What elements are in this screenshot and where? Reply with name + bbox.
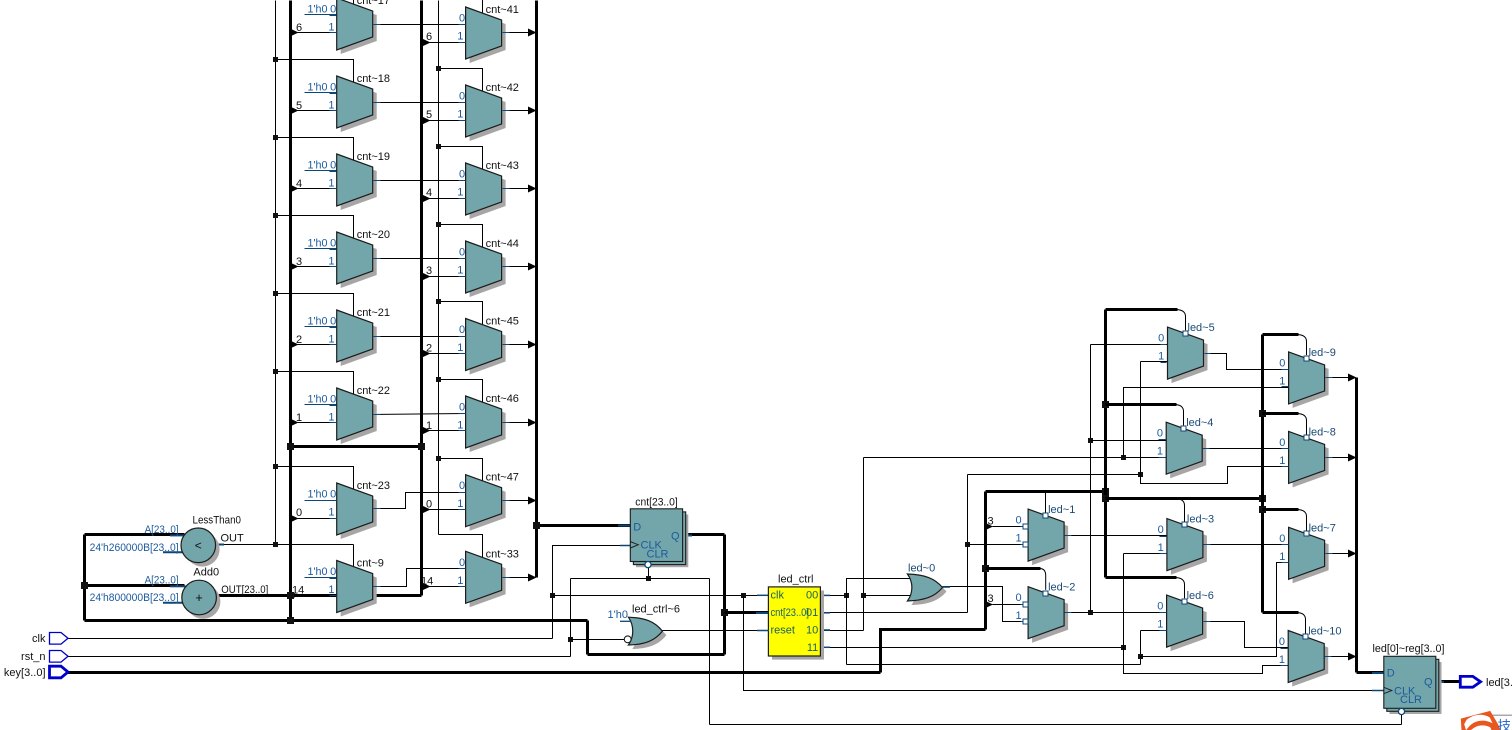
- wire reset rail top: [571, 578, 710, 580]
- wire bus Q vertical: [723, 535, 726, 655]
- wire drop led~10 select: [1297, 613, 1305, 634]
- svg-text:0: 0: [330, 394, 336, 406]
- wire select cnt~17: [276, 0, 354, 5]
- wire net11 from led_ctrl: [821, 647, 1124, 649]
- svg-text:A[23..0]: A[23..0]: [145, 574, 179, 586]
- wire bit tap cnt~22: [291, 422, 337, 424]
- mux cnt~45: [457, 316, 519, 375]
- svg-text:Q: Q: [671, 531, 680, 543]
- svg-text:cnt~41: cnt~41: [486, 4, 519, 16]
- svg-text:0: 0: [1279, 437, 1285, 449]
- wire led~7 output: [1325, 553, 1349, 555]
- svg-text:0: 0: [459, 169, 465, 181]
- junction OUT to select rail: [273, 542, 278, 547]
- svg-text:<: <: [195, 539, 202, 553]
- mux led~7: [1279, 522, 1336, 583]
- svg-text:00: 00: [806, 590, 818, 602]
- wire select cnt~33: [439, 535, 483, 558]
- wire net01 rise: [967, 475, 969, 613]
- junction bus link right: [418, 443, 425, 450]
- wire stub CLK led register: [1372, 690, 1385, 692]
- wire stub 11 led_ctrl: [820, 646, 830, 648]
- wire bus select to led~3: [1106, 497, 1263, 500]
- wire stub CLK cnt: [620, 545, 631, 547]
- wire select cnt~47: [439, 459, 483, 481]
- svg-text:1: 1: [1015, 610, 1021, 622]
- wire bus key to led~2 select: [986, 567, 1041, 570]
- svg-text:cnt~9: cnt~9: [357, 558, 384, 570]
- wire led~5 output to led~9 input0: [1203, 354, 1289, 370]
- svg-text:1: 1: [457, 575, 463, 587]
- wire bus A into Add0: [85, 584, 185, 587]
- wire select cnt~23: [276, 467, 354, 489]
- wire net00 up to led~0 input A: [847, 579, 915, 596]
- svg-text:1: 1: [328, 256, 334, 268]
- svg-text:led~7: led~7: [1309, 522, 1336, 534]
- wire stub 00 led_ctrl: [820, 594, 830, 596]
- svg-text:led_ctrl~6: led_ctrl~6: [632, 604, 680, 616]
- junction net00 branch to led~7: [1138, 654, 1143, 659]
- svg-text:D: D: [1387, 668, 1395, 680]
- wire net10 rise: [863, 458, 865, 631]
- wire bit tap cnt~42: [423, 120, 466, 122]
- wire led~1 output to led~3 input0: [1065, 535, 1167, 537]
- wire const 1'h0 stub cnt~23: [305, 500, 337, 502]
- junction select rail right column: [1259, 495, 1266, 502]
- svg-text:cnt~47: cnt~47: [486, 472, 519, 484]
- arrow bit tap cnt~33: [422, 583, 431, 591]
- wire drop led~4 select: [1175, 405, 1183, 426]
- wire net00 branch to led~7 input1: [1141, 563, 1289, 657]
- svg-text:1: 1: [457, 109, 463, 121]
- wire led register CLR drop: [1401, 715, 1403, 725]
- svg-text:3: 3: [988, 593, 994, 605]
- svg-text:+: +: [195, 590, 203, 605]
- wire net01 up branch: [1140, 362, 1142, 475]
- wire select cnt~43: [439, 147, 483, 169]
- junction select to led~8: [1259, 410, 1266, 417]
- register cnt[23..0]: [630, 497, 688, 568]
- wire stub Q cnt: [683, 535, 692, 537]
- wire led~3 output to led~7 input0: [1203, 544, 1289, 546]
- mux led~4: [1157, 417, 1214, 478]
- wire net00 to led~6 input1: [1141, 630, 1167, 632]
- arrow bit tap cnt~41: [422, 39, 431, 47]
- junction net10 to led~0 input B: [861, 593, 866, 598]
- svg-text:clk: clk: [32, 633, 46, 645]
- arrow bit tap cnt~45: [422, 350, 431, 358]
- junction net01 to led~1: [965, 542, 970, 547]
- svg-text:5: 5: [296, 100, 302, 112]
- wire key bit3 to led~1 input0: [993, 526, 1023, 528]
- mux cnt~47: [457, 472, 519, 531]
- svg-text:cnt~45: cnt~45: [486, 316, 519, 328]
- wire bus select to led~4: [1106, 403, 1177, 406]
- arrow bit tap cnt~44: [422, 273, 431, 281]
- wire bus cnt feedback column2: [420, 1, 423, 596]
- svg-text:1'h0: 1'h0: [308, 160, 328, 172]
- wire clk rise: [552, 596, 554, 639]
- wire rst_n from pin: [68, 656, 571, 658]
- wire net11 up to led~3 input1: [1123, 554, 1125, 648]
- wire output cnt~22 to cnt~46 input0: [373, 414, 466, 415]
- arrow bit tap cnt~47: [422, 506, 431, 514]
- wire net10 to led~0 input B: [864, 595, 915, 597]
- svg-text:cnt~43: cnt~43: [486, 160, 519, 172]
- junction select rail cnt~21: [273, 291, 278, 296]
- wire bus A into LessThan0: [85, 533, 185, 536]
- svg-text:1: 1: [457, 420, 463, 432]
- arrow bit tap cnt~18: [290, 107, 299, 115]
- svg-text:1'h0: 1'h0: [308, 489, 328, 501]
- svg-text:led~6: led~6: [1187, 590, 1214, 602]
- svg-text:0: 0: [330, 160, 336, 172]
- mux cnt~23: [328, 480, 390, 539]
- wire net10 branch to led~9 input1: [1124, 388, 1289, 458]
- svg-text:14: 14: [421, 575, 433, 587]
- junction led~2 out to led~4: [1088, 438, 1093, 443]
- wire bit tap cnt~41: [423, 42, 466, 44]
- svg-text:OUT[23..0]: OUT[23..0]: [221, 584, 268, 596]
- svg-text:1: 1: [328, 412, 334, 424]
- svg-text:led~10: led~10: [1308, 626, 1341, 638]
- wire select cnt~45: [439, 302, 483, 325]
- svg-text:0: 0: [330, 4, 336, 16]
- wire const 1'h0 stub cnt~21: [305, 326, 337, 328]
- junction key bus to led~2 select: [982, 565, 989, 572]
- wire output cnt~44 to merge bus: [502, 266, 529, 268]
- wire drop led~7 select: [1298, 510, 1307, 531]
- svg-text:3: 3: [988, 516, 994, 528]
- arrow bit tap cnt~46: [422, 427, 431, 435]
- wire select cnt~21: [276, 294, 354, 317]
- arrow key bit3 tap lower: [985, 601, 994, 609]
- arrow merge cnt~44: [528, 263, 537, 271]
- svg-text:1: 1: [328, 178, 334, 190]
- mux led~5: [1158, 322, 1215, 383]
- svg-text:0: 0: [459, 402, 465, 414]
- svg-text:Add0: Add0: [193, 567, 219, 579]
- svg-text:1: 1: [1157, 619, 1163, 631]
- mux cnt~33: [457, 548, 519, 607]
- svg-text:cnt~46: cnt~46: [486, 393, 519, 405]
- wire drop led~2 select: [1040, 569, 1045, 590]
- svg-text:6: 6: [296, 22, 302, 34]
- svg-text:1: 1: [457, 187, 463, 199]
- wire output cnt~19 to cnt~43 input0: [373, 180, 466, 182]
- mux led~1: [1015, 504, 1075, 565]
- junction key bus right rail: [1102, 488, 1109, 495]
- svg-text:0: 0: [459, 324, 465, 336]
- wire output cnt~17 to cnt~41 input0: [373, 24, 466, 26]
- svg-text:led_ctrl: led_ctrl: [778, 574, 813, 586]
- junction select rail cnt~47: [436, 456, 441, 461]
- wire select cnt~19: [276, 138, 354, 161]
- wire bit tap cnt~23: [291, 518, 337, 520]
- arrow led~8 to bus: [1348, 454, 1357, 462]
- svg-text:led~1: led~1: [1048, 504, 1075, 516]
- wire const 1'h0 stub cnt~22: [305, 404, 337, 406]
- svg-text:cnt[23..0]: cnt[23..0]: [771, 607, 810, 619]
- wire led~8 output: [1325, 457, 1349, 459]
- junction led~2 output rail: [1088, 610, 1093, 615]
- wire bus Q jog bottom: [588, 653, 725, 656]
- junction select rail cnt~18: [273, 57, 278, 62]
- wire led~2 output to led~6 input0: [1065, 612, 1167, 614]
- input pin key[3..0]: [4, 666, 68, 679]
- svg-text:0: 0: [330, 238, 336, 250]
- wire net00 rise right: [1140, 631, 1142, 665]
- svg-text:1: 1: [1158, 542, 1164, 554]
- svg-text:CLR: CLR: [647, 549, 669, 561]
- arrow bit tap cnt~21: [290, 341, 299, 349]
- svg-text:cnt~17: cnt~17: [357, 0, 390, 7]
- output pin led[3..0]: [1460, 676, 1512, 689]
- svg-text:0: 0: [426, 499, 432, 511]
- junction net10 branch to led~9: [1121, 455, 1126, 460]
- arrow merge cnt~45: [528, 341, 537, 349]
- wire bus select to led~8: [1263, 412, 1299, 415]
- wire bus to led register D: [1357, 671, 1384, 674]
- svg-text:led~9: led~9: [1309, 347, 1336, 359]
- junction select rail cnt~23: [273, 464, 278, 469]
- svg-text:0: 0: [1279, 533, 1285, 545]
- wire select cnt~18: [276, 60, 354, 83]
- svg-text:4: 4: [296, 178, 302, 190]
- junction select rail cnt~20: [273, 213, 278, 218]
- svg-text:0: 0: [1157, 428, 1163, 440]
- junction select to led~7: [1259, 506, 1266, 513]
- wire led~2 out to led~4 input0: [1091, 440, 1167, 442]
- watermark box edge: [1492, 714, 1512, 716]
- wire bus select to led~9: [1263, 333, 1299, 336]
- mux cnt~19: [328, 151, 390, 210]
- svg-text:1: 1: [457, 342, 463, 354]
- operator Add0: [90, 567, 269, 619]
- wire bit tap cnt~20: [291, 266, 337, 268]
- wire output cnt~21 to cnt~45 input0: [373, 336, 466, 338]
- svg-text:cnt~20: cnt~20: [357, 229, 390, 241]
- arrow bit tap cnt~43: [422, 195, 431, 203]
- svg-text:0: 0: [459, 91, 465, 103]
- mux led~8: [1279, 426, 1336, 487]
- svg-text:clk: clk: [771, 590, 785, 602]
- wire bit tap cnt~45: [423, 353, 466, 355]
- svg-text:1: 1: [1157, 446, 1163, 458]
- wire const 1'h0 stub cnt~19: [305, 170, 337, 172]
- svg-text:1'h0: 1'h0: [308, 238, 328, 250]
- wire clk to led register CLK: [744, 596, 1384, 691]
- wire bus select to led~7: [1263, 508, 1299, 511]
- svg-text:0: 0: [1158, 524, 1164, 536]
- mux cnt~46: [457, 393, 519, 452]
- wire drop led~3 select: [1176, 499, 1185, 522]
- wire bus select rail mid: [1104, 310, 1107, 578]
- wire output cnt~23 to cnt~47 input0: [373, 493, 466, 509]
- wire bus cnt feedback column1: [289, 1, 292, 621]
- svg-text:led[3.: led[3.: [1486, 677, 1512, 689]
- svg-text:1: 1: [328, 507, 334, 519]
- wire bus Q led register to pin: [1436, 680, 1461, 683]
- mux cnt~42: [457, 82, 519, 141]
- mux led~2: [1015, 582, 1075, 643]
- wire stub A Add0: [170, 585, 186, 587]
- svg-text:led~2: led~2: [1048, 582, 1075, 594]
- wire cnt CLR drop: [648, 568, 650, 579]
- wire bit tap cnt~21: [291, 344, 337, 346]
- wire output cnt~43 to merge bus: [502, 188, 529, 190]
- svg-text:1: 1: [457, 498, 463, 510]
- junction rst_n to NOR input: [568, 637, 573, 642]
- wire const 1'h0 stub cnt~17: [305, 14, 337, 16]
- wire clk from pin: [68, 638, 553, 640]
- svg-text:led~5: led~5: [1188, 322, 1215, 334]
- wire bit tap cnt~44: [423, 276, 466, 278]
- wire bit tap cnt~33: [423, 586, 466, 588]
- svg-text:0: 0: [1158, 333, 1164, 345]
- wire bus select rail right: [1261, 335, 1264, 613]
- mux led~6: [1157, 590, 1214, 651]
- svg-text:1: 1: [1279, 455, 1285, 467]
- wire net10 from led_ctrl: [821, 630, 864, 632]
- wire key to led~1 select: [1045, 492, 1047, 513]
- wire const stub LessThan0 B: [163, 551, 183, 553]
- wire bus Q return bottom: [85, 619, 588, 622]
- mux cnt~20: [328, 229, 390, 288]
- wire reset rail drop: [709, 579, 711, 725]
- arrow bit tap cnt~19: [290, 185, 299, 193]
- svg-text:1: 1: [1158, 351, 1164, 363]
- wire output cnt~42 to merge bus: [502, 110, 529, 112]
- svg-text:cnt~33: cnt~33: [486, 548, 519, 560]
- svg-text:0: 0: [1279, 636, 1285, 648]
- svg-text:rst_n: rst_n: [21, 651, 45, 663]
- nor-gate led_ctrl~6: [608, 604, 681, 650]
- svg-text:led~8: led~8: [1309, 426, 1336, 438]
- wire rst_n rise: [570, 579, 572, 657]
- svg-text:0: 0: [330, 316, 336, 328]
- wire select rail column1: [275, 1, 277, 545]
- wire stub D led register: [1372, 672, 1385, 674]
- junction select rail cnt~19: [273, 135, 278, 140]
- svg-text:0: 0: [459, 480, 465, 492]
- wire stub 10 led_ctrl: [820, 629, 830, 631]
- svg-text:3: 3: [296, 256, 302, 268]
- operator LessThan0: [90, 515, 244, 567]
- svg-text:0: 0: [1279, 357, 1285, 369]
- wire bus select to led~10: [1263, 611, 1299, 614]
- svg-text:cnt~19: cnt~19: [357, 151, 390, 163]
- wire stub D cnt: [618, 525, 631, 527]
- wire stub 01 led_ctrl: [820, 612, 830, 614]
- wire key bit3 to led~2 input0: [993, 604, 1023, 606]
- svg-text:10: 10: [806, 625, 818, 637]
- svg-text:1: 1: [1015, 533, 1021, 545]
- wire bus led collection: [1355, 378, 1358, 673]
- svg-text:D: D: [633, 522, 641, 534]
- svg-text:cnt~21: cnt~21: [357, 307, 390, 319]
- svg-text:led[0]~reg[3..0]: led[0]~reg[3..0]: [1373, 643, 1445, 655]
- svg-text:1: 1: [296, 412, 302, 424]
- arrow bit tap cnt~22: [290, 419, 299, 427]
- wire output cnt~41 to merge bus: [502, 32, 529, 34]
- wire clk to cnt CLK: [553, 546, 631, 596]
- svg-text:技: 技: [1498, 719, 1512, 730]
- svg-text:CLR: CLR: [1400, 694, 1422, 706]
- junction bus link left: [287, 443, 294, 450]
- wire output cnt~33 to merge bus: [502, 577, 529, 579]
- svg-text:1: 1: [426, 420, 432, 432]
- wire bit tap cnt~17: [291, 32, 337, 34]
- wire bit tap cnt~18: [291, 110, 337, 112]
- wire bus D into cnt register: [537, 524, 631, 527]
- wire net00 from led_ctrl: [821, 595, 847, 597]
- wire stub OUT LessThan0: [216, 544, 224, 546]
- wire bus key from pin: [68, 671, 881, 674]
- wire bit tap cnt~19: [291, 188, 337, 190]
- wire stub led~0 out: [943, 586, 951, 588]
- wire drop led~5 select: [1176, 310, 1185, 331]
- wire output cnt~45 to merge bus: [502, 344, 529, 346]
- arrow bit tap cnt~20: [290, 263, 299, 271]
- arrow merge cnt~42: [528, 107, 537, 115]
- wire rst_n to led_ctrl~6 bubble: [571, 639, 625, 641]
- wire led~2 out to led~5 input0: [1091, 344, 1168, 346]
- arrow bit tap cnt~9: [290, 592, 299, 600]
- wire clk to led_ctrl clk: [553, 595, 769, 597]
- junction Add0 OUT at column1 bus: [287, 592, 294, 599]
- arrow led~7 to bus: [1348, 550, 1357, 558]
- wire led~10 output: [1325, 656, 1349, 658]
- svg-text:01: 01: [806, 607, 818, 619]
- mux cnt~21: [328, 307, 390, 366]
- junction cnt CLR to reset rail: [646, 576, 651, 581]
- wire net01 to led~1 input1: [968, 544, 1023, 546]
- input pin clk: [32, 633, 68, 646]
- svg-text:1: 1: [328, 584, 334, 596]
- svg-text:1: 1: [328, 22, 334, 34]
- arrow bit tap cnt~23: [290, 515, 299, 523]
- junction net00 branch: [844, 593, 849, 598]
- svg-text:2: 2: [426, 343, 432, 355]
- wire output cnt~18 to cnt~42 input0: [373, 102, 466, 104]
- wire net01 down branch to led~8 input1: [1141, 467, 1289, 484]
- svg-text:1'h0: 1'h0: [308, 316, 328, 328]
- svg-text:led~4: led~4: [1186, 417, 1213, 429]
- wire net10 top run: [864, 457, 1167, 459]
- wire output cnt~46 to merge bus: [502, 422, 529, 424]
- wire drop led~8 select: [1298, 414, 1307, 435]
- wire const 1'h0 stub cnt~18: [305, 92, 337, 94]
- junction select rail cnt~44: [436, 222, 441, 227]
- svg-text:6: 6: [426, 31, 432, 43]
- wire stub cnt input led_ctrl: [756, 612, 769, 614]
- svg-text:cnt[23..0]: cnt[23..0]: [635, 497, 678, 509]
- wire led~2 output rise: [1090, 345, 1092, 613]
- or-gate led~0: [907, 563, 946, 606]
- svg-text:1'h0: 1'h0: [308, 82, 328, 94]
- svg-text:4: 4: [426, 187, 432, 199]
- mux led~3: [1158, 514, 1215, 575]
- svg-text:key[3..0]: key[3..0]: [4, 667, 46, 679]
- wire const 1'h0 stub cnt~20: [305, 248, 337, 250]
- wire bus select to led~6: [1106, 576, 1177, 579]
- svg-text:LessThan0: LessThan0: [193, 515, 242, 527]
- wire bus key jog: [881, 630, 986, 673]
- junction select rail cnt~42: [436, 66, 441, 71]
- mux cnt~9: [328, 558, 384, 617]
- block led_ctrl: [768, 574, 824, 660]
